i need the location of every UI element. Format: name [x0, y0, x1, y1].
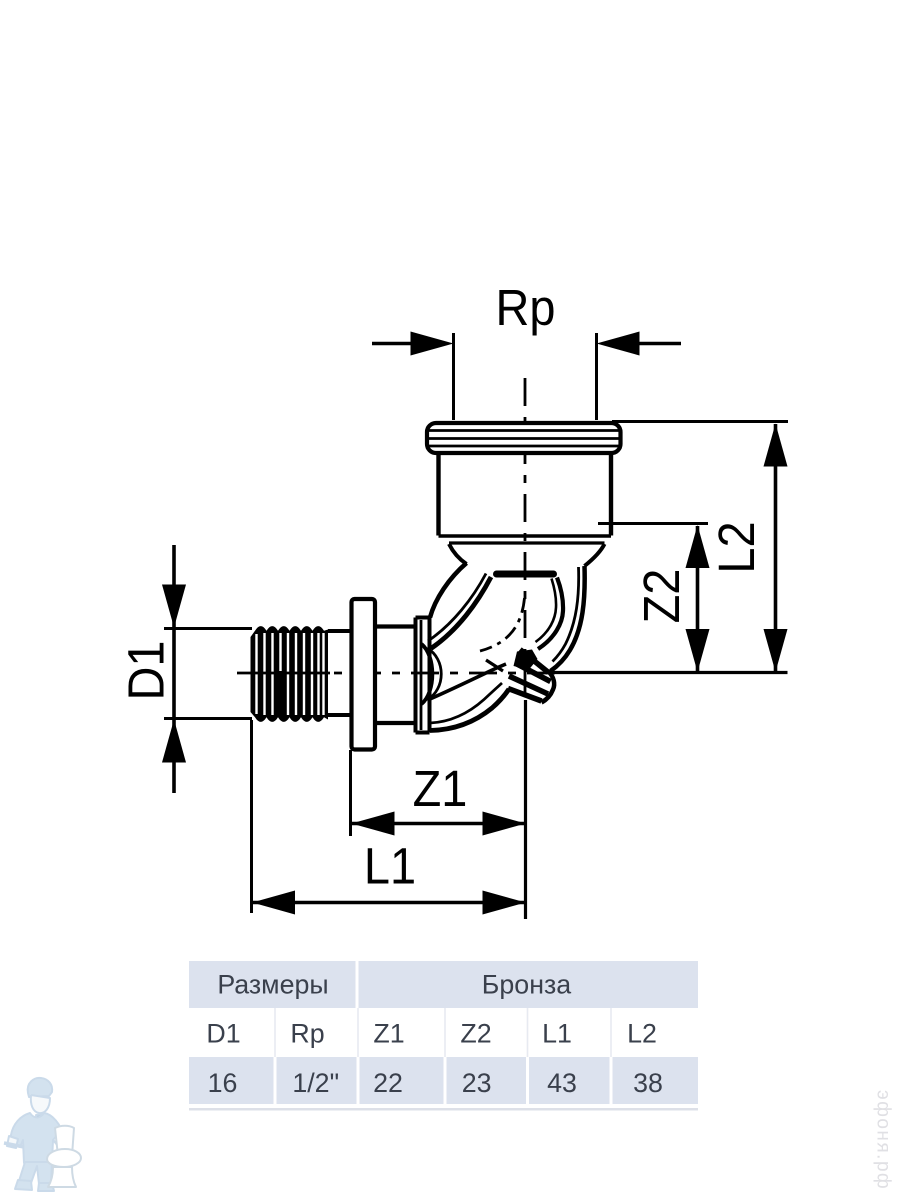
svg-text:D1: D1 — [119, 641, 175, 701]
elbow right wall outer — [551, 566, 585, 671]
socket rim — [427, 423, 621, 453]
svg-text:L1: L1 — [542, 1019, 572, 1049]
socket rim lines — [427, 431, 620, 447]
svg-text:Z1: Z1 — [373, 1019, 404, 1049]
legs — [19, 1162, 52, 1184]
elbow top-left outer contour — [430, 563, 467, 618]
header row separator — [356, 961, 359, 1008]
socket body sides — [439, 453, 612, 536]
svg-text:Z2: Z2 — [460, 1019, 491, 1049]
nub thread stripe 2 — [516, 664, 551, 682]
svg-text:16: 16 — [208, 1068, 238, 1098]
flange — [352, 599, 376, 750]
L1 right arrow — [483, 891, 526, 915]
thread slits — [257, 633, 324, 715]
elbow inner wall arc pair main (neck ring to hub) — [431, 577, 491, 649]
cylinder between flange and hub — [375, 627, 416, 724]
svg-text:L1: L1 — [364, 839, 416, 895]
bend dashed centerline arc — [480, 598, 525, 651]
socket bottom ledge — [439, 534, 612, 538]
hub right edge — [428, 618, 432, 733]
right hand on toilet — [53, 1134, 64, 1146]
bow tie — [36, 1114, 45, 1123]
svg-text:L2: L2 — [709, 521, 765, 573]
D1 top arrow — [162, 585, 186, 628]
nub thread stripe 1 — [520, 650, 549, 673]
ring right wall pair main — [538, 578, 563, 650]
Z2 dimension line — [696, 526, 700, 671]
Z1 left arrow — [351, 812, 394, 836]
L2 dimension line — [774, 424, 778, 671]
table values row background — [189, 1057, 698, 1104]
arrows — [162, 332, 788, 915]
svg-text:D1: D1 — [206, 1019, 240, 1049]
D1 dimension line — [172, 545, 176, 793]
centerline vertical (socket axis) — [524, 378, 527, 700]
hub left double lines — [414, 618, 418, 733]
Z1 dimension line — [352, 822, 526, 826]
socket bell top line — [449, 541, 605, 544]
svg-text:Z2: Z2 — [634, 569, 690, 624]
elbow bottom outer companion — [430, 683, 502, 723]
svg-text:43: 43 — [547, 1068, 577, 1098]
hub bore bows — [422, 644, 433, 704]
Rp left arrow — [411, 332, 454, 356]
svg-text:23: 23 — [462, 1068, 492, 1098]
L2 extension top — [612, 420, 788, 423]
L2 top arrow — [764, 424, 788, 467]
svg-text:Rp: Rp — [496, 280, 556, 336]
nub thread stripe 3 — [509, 676, 548, 694]
socket bell left — [449, 544, 467, 564]
centerline crossing slits — [251, 672, 331, 675]
centerline horizontal solid extension (Z2/L2 bottom) — [548, 671, 788, 674]
Rp extension lines — [454, 333, 597, 420]
socket bell right — [585, 544, 605, 566]
body jacket — [9, 1113, 64, 1163]
values row separators — [274, 1057, 613, 1104]
Rp dimension tails — [372, 342, 681, 346]
nub thread stripe 4 — [508, 689, 542, 702]
table bottom rule — [189, 1108, 698, 1111]
L1 left arrow — [252, 891, 295, 915]
smooth section between thread and flange — [328, 631, 351, 715]
svg-text:Бронза: Бронза — [482, 970, 571, 1000]
cap — [28, 1078, 52, 1097]
L1 extension left — [250, 720, 253, 913]
Z2 top arrow — [686, 525, 710, 568]
table text — [206, 970, 663, 1099]
elbow bottom outer arc — [430, 689, 509, 731]
male thread (filled) — [251, 626, 331, 722]
toilet seat lid — [47, 1149, 81, 1167]
L2 bottom arrow — [764, 629, 788, 672]
elbow bore bottom line — [430, 664, 506, 699]
nub root line — [486, 660, 503, 671]
svg-text:эфоня.рф: эфоня.рф — [873, 1090, 894, 1190]
Z2 bottom arrow — [686, 629, 710, 672]
svg-text:Rp: Rp — [290, 1019, 324, 1049]
corner nub (threaded boss) — [486, 650, 554, 703]
svg-text:Размеры: Размеры — [217, 970, 328, 1000]
svg-text:22: 22 — [373, 1068, 403, 1098]
Z2 extension top — [598, 522, 708, 525]
nub junction blob — [514, 650, 538, 670]
neck inner ring — [497, 571, 554, 578]
arm cuff + wrench — [7, 1136, 18, 1148]
boot left — [15, 1180, 32, 1190]
Z1 right arrow — [483, 812, 526, 836]
svg-text:1/2": 1/2" — [292, 1068, 339, 1098]
Rp right arrow — [597, 332, 640, 356]
D1 bottom arrow — [162, 720, 186, 763]
nub tip cap — [542, 672, 555, 703]
svg-text:Z1: Z1 — [413, 761, 468, 817]
ring right wall pair companion — [536, 579, 557, 643]
plumber watermark — [4, 1078, 81, 1191]
toilet pedestal — [48, 1167, 76, 1187]
centerline vertical solid extension (Z1/L1 right) — [524, 700, 527, 919]
elbow right wall companion — [553, 567, 579, 662]
dimension labels — [119, 280, 766, 895]
svg-text:L2: L2 — [627, 1019, 657, 1049]
boot right — [38, 1183, 54, 1191]
centerline horizontal (male axis) — [237, 672, 556, 675]
elbow inner wall arc pair companion — [428, 574, 486, 642]
L1 dimension line — [252, 901, 526, 905]
middle row faint separators — [275, 1008, 611, 1057]
svg-text:38: 38 — [633, 1068, 663, 1098]
D1 extension lines — [164, 629, 252, 719]
hub top and bottom edges — [416, 618, 430, 733]
Z1 extension left — [349, 750, 352, 836]
table header row background — [189, 961, 698, 1008]
head — [31, 1095, 50, 1113]
toilet tank — [55, 1126, 74, 1156]
